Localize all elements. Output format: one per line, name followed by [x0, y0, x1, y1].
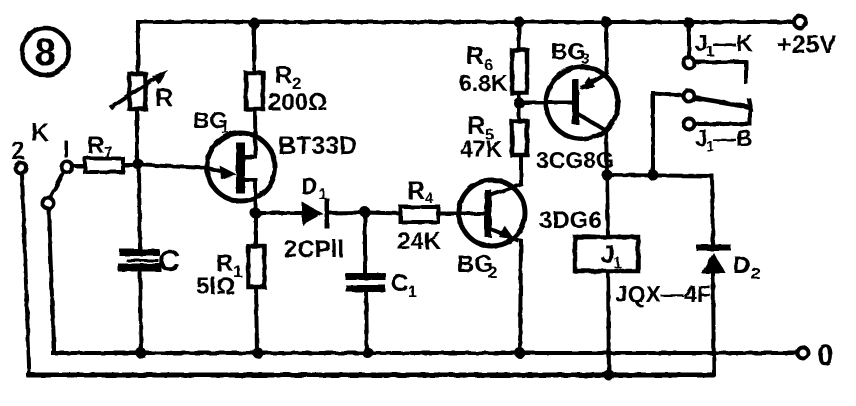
node BG3 collector / relay: [602, 170, 613, 181]
node rail C1: [363, 348, 374, 359]
node rail R1: [253, 348, 264, 359]
svg-text:1: 1: [221, 120, 229, 136]
wire BG3 emitter to top rail: [605, 22, 609, 71]
svg-text:—B: —B: [713, 125, 753, 151]
node junction R/R7/C/emitter: [133, 159, 144, 170]
wire BG3 collector down: [606, 130, 607, 175]
terminal 2: [11, 137, 27, 174]
svg-text:2CPll: 2CPll: [284, 236, 344, 263]
svg-text:2: 2: [751, 264, 760, 283]
svg-text:R: R: [407, 177, 425, 205]
svg-text:0: 0: [817, 339, 834, 372]
diode D1 (2CP11): [284, 173, 360, 263]
transistor BG1 (UJT BT33D): [193, 107, 357, 213]
svg-text:D: D: [301, 173, 318, 199]
wire node to D2: [607, 175, 713, 245]
resistor R5: [460, 93, 527, 162]
node rail C: [136, 348, 147, 359]
resistor R7: [73, 132, 132, 172]
wire 0V bottom rail: [53, 351, 797, 355]
svg-text:R: R: [275, 62, 292, 89]
svg-text:K: K: [31, 119, 49, 147]
svg-text:24K: 24K: [397, 228, 442, 255]
svg-text:D: D: [733, 252, 750, 279]
transistor BG3 (3CG8G): [525, 38, 618, 173]
terminal 0: [798, 339, 834, 372]
svg-text:7: 7: [104, 145, 113, 162]
contact J1-K: [684, 23, 754, 82]
node rail BG2 emitter: [515, 348, 526, 359]
wire switch to bottom rail: [49, 209, 55, 353]
wire BG2 collector to R5: [519, 155, 523, 184]
wire terminal 2 to bottom rail: [22, 174, 29, 375]
resistor R (variable): [112, 70, 173, 112]
svg-text:8: 8: [35, 32, 56, 74]
capacitor C: [122, 170, 180, 353]
figure number 8: [22, 28, 69, 75]
svg-text:3: 3: [581, 51, 590, 68]
switch K: [31, 119, 73, 209]
node R6/R5/BG3 base: [514, 98, 525, 109]
relay J1: [575, 175, 711, 375]
wire +25V top rail: [138, 20, 794, 24]
node top rail at R6: [514, 17, 525, 28]
svg-text:1: 1: [408, 284, 417, 301]
contact J1-B: [653, 91, 753, 170]
wire R column: [137, 22, 138, 158]
svg-text:1: 1: [613, 255, 622, 272]
wire node to BG1 emitter: [144, 165, 207, 168]
node second rail relay: [604, 370, 615, 381]
svg-text:2: 2: [11, 137, 25, 165]
wire second bottom rail: [29, 373, 713, 378]
resistor R4: [368, 177, 459, 255]
svg-text:C: C: [391, 270, 408, 297]
svg-text:47K: 47K: [460, 136, 503, 162]
svg-text:R: R: [155, 84, 173, 112]
diode D2: [699, 248, 760, 376]
svg-text:5lΩ: 5lΩ: [196, 273, 235, 300]
node D1/C1/R4: [360, 207, 371, 218]
terminal +25V: [777, 16, 836, 59]
node top rail at R2: [249, 18, 260, 29]
svg-text:3CG8G: 3CG8G: [536, 147, 614, 173]
svg-text:1: 1: [318, 186, 327, 203]
svg-text:R: R: [87, 132, 104, 159]
node BG1 base1 / D1 / R1: [250, 208, 261, 219]
resistor R6: [459, 22, 527, 96]
svg-text:4: 4: [425, 190, 434, 207]
svg-text:200Ω: 200Ω: [268, 89, 327, 116]
svg-text:+25V: +25V: [777, 31, 836, 59]
svg-text:C: C: [158, 243, 180, 278]
wire BG2 emitter to bottom rail: [520, 241, 521, 353]
svg-text:BT33D: BT33D: [278, 132, 357, 160]
transistor BG2 (3DG6): [457, 180, 602, 282]
svg-text:R: R: [466, 42, 484, 70]
node J1-B common: [648, 170, 659, 181]
node top rail at BG3: [601, 17, 612, 28]
node top rail at J1-K: [684, 18, 695, 29]
svg-text:2: 2: [488, 263, 497, 282]
svg-text:JQX—4F: JQX—4F: [615, 281, 711, 307]
resistor R2: [246, 24, 327, 116]
svg-text:—K: —K: [713, 30, 753, 56]
svg-text:3DG6: 3DG6: [539, 207, 602, 234]
wire node to D1: [261, 211, 302, 215]
svg-text:6.8K: 6.8K: [459, 70, 508, 96]
capacitor C1: [349, 212, 417, 353]
resistor R1: [196, 213, 265, 353]
